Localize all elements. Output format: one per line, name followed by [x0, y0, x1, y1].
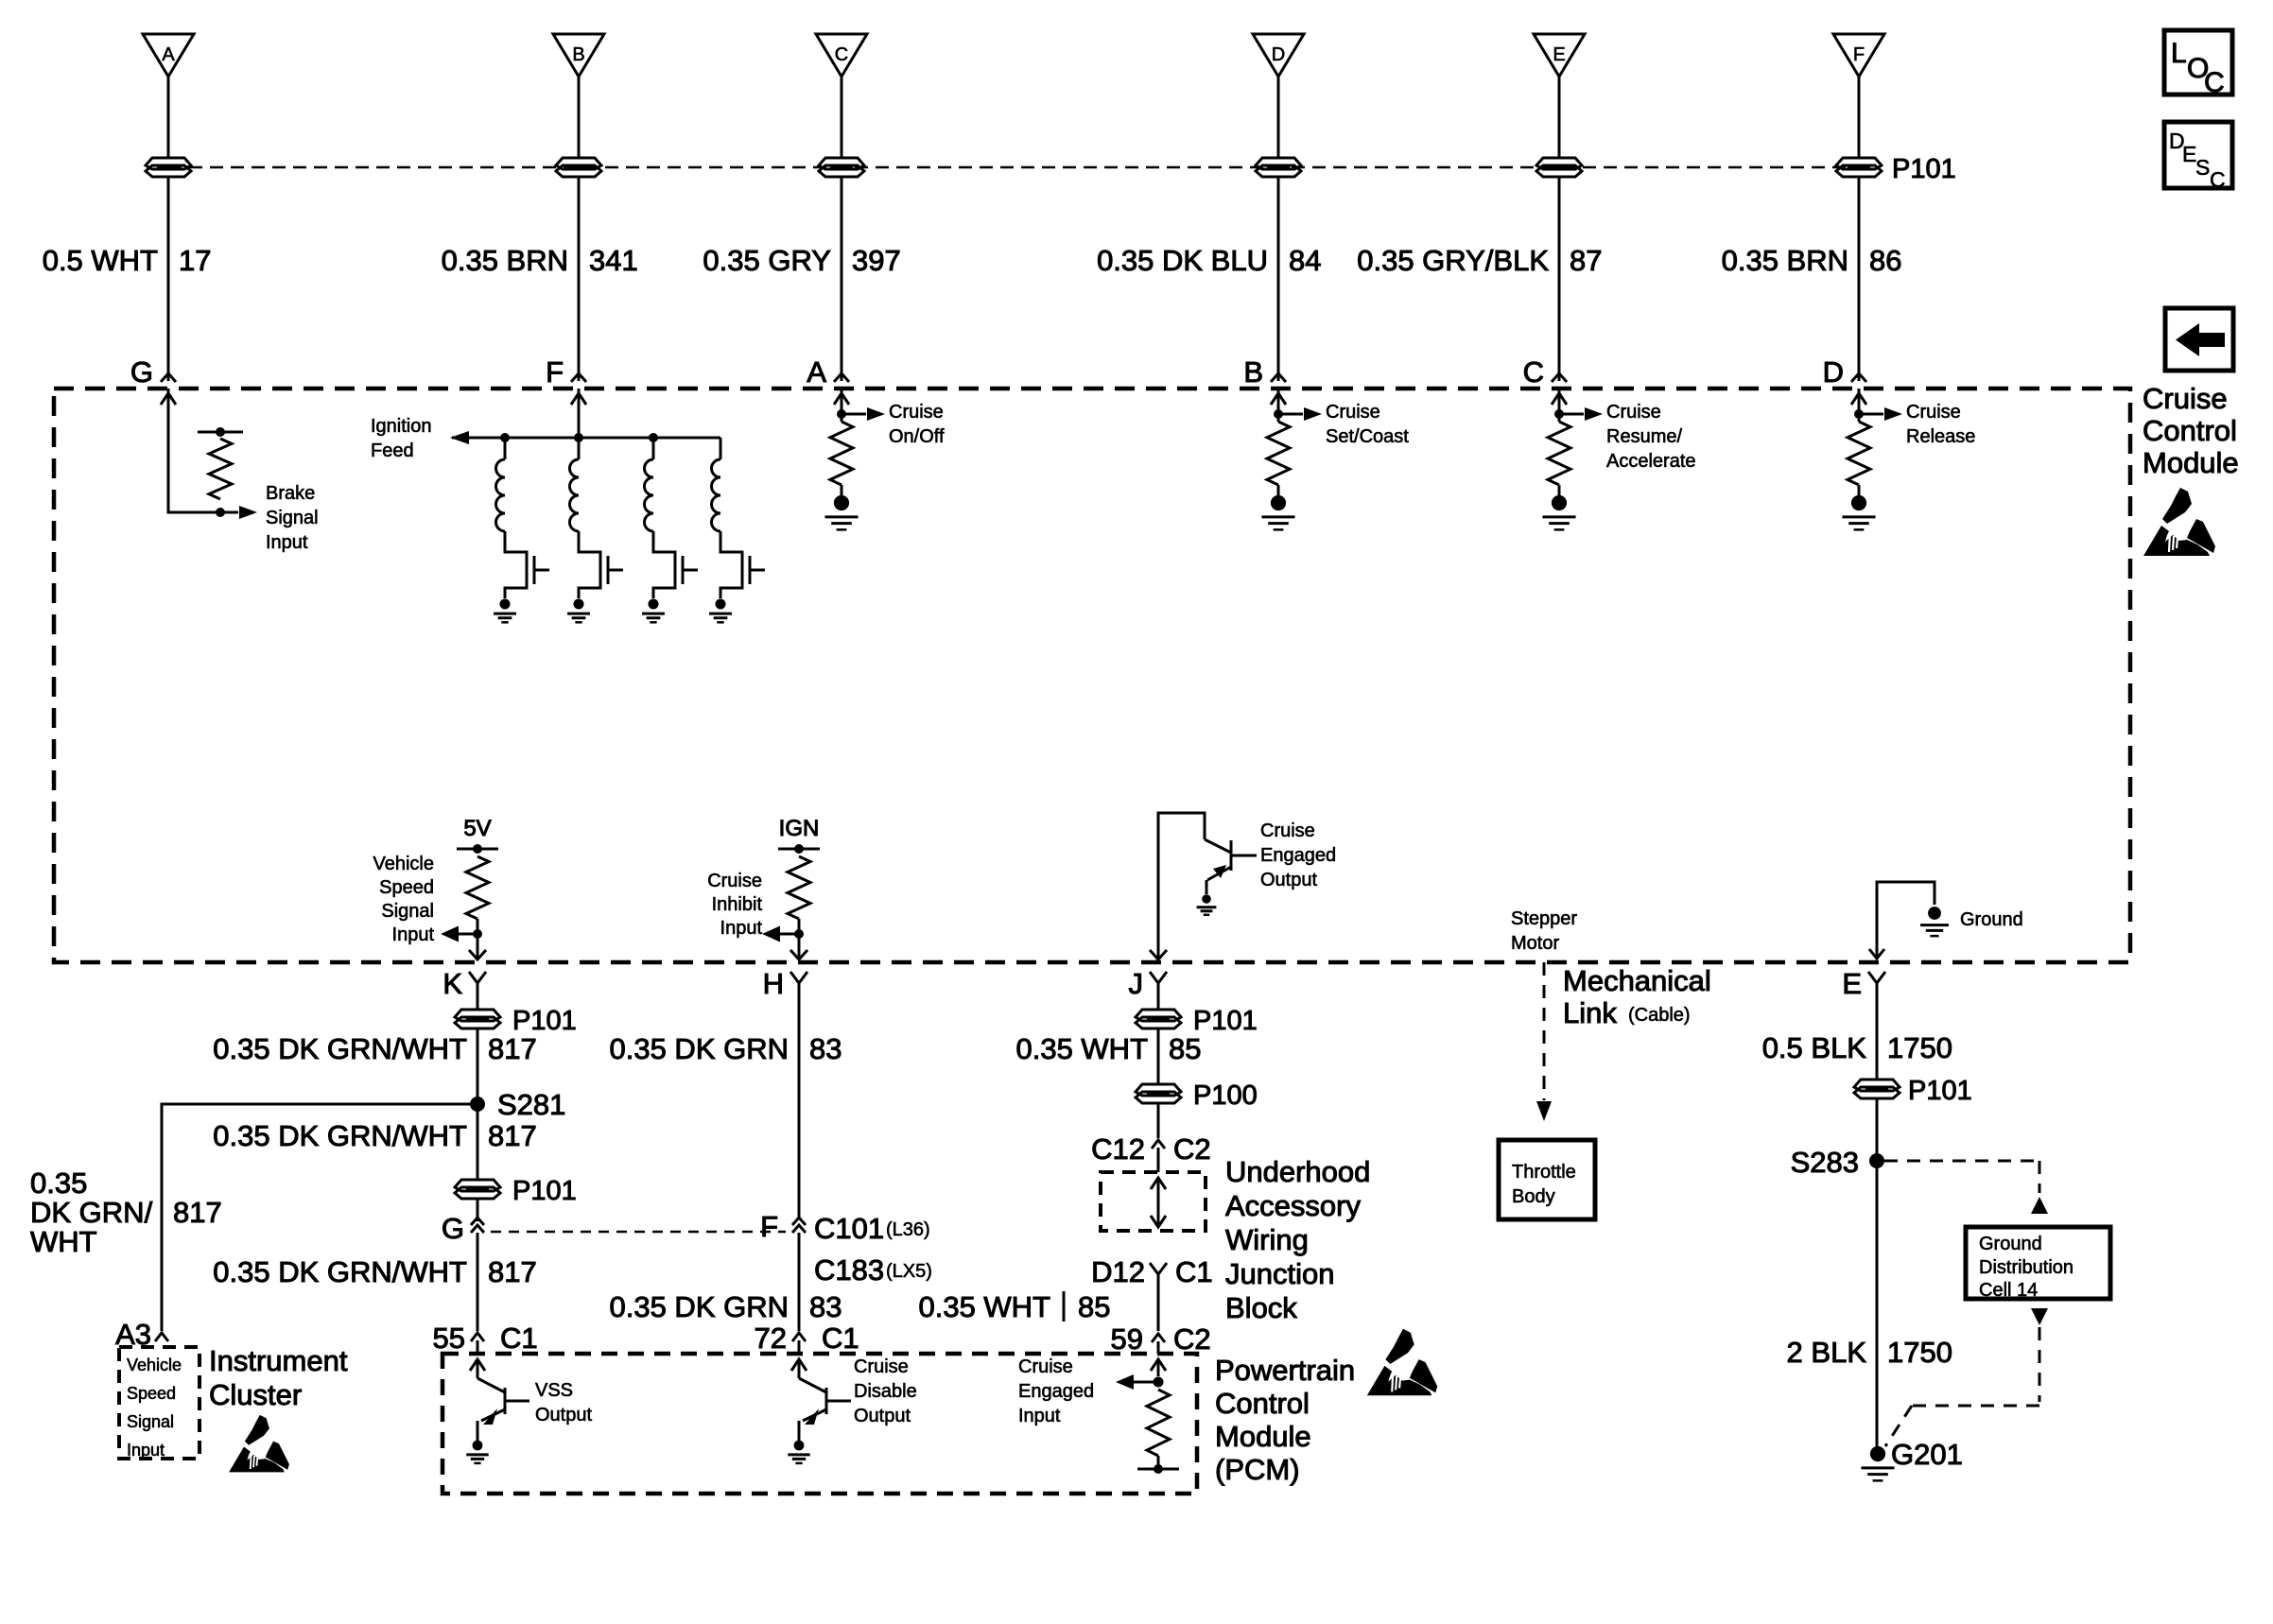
resistor (cruise engaged input) [1147, 1390, 1170, 1456]
IGN rail [778, 816, 820, 854]
wire S283 to G201 [1876, 1161, 1879, 1448]
grommet P100 [1136, 1084, 1181, 1103]
input direction arrow at pin A [834, 393, 849, 405]
wire label 0.35 DK GRN 83 (upper) [609, 1032, 842, 1065]
input arrow (VSS Output) [470, 1359, 485, 1378]
svg-text:Module: Module [2143, 446, 2239, 479]
svg-text:Control: Control [1215, 1387, 1310, 1420]
wire through junction block [1151, 1178, 1166, 1227]
grommet P101 pass-through (D) [1256, 158, 1301, 177]
wire label 0.35 WHT 85 (upper) [1015, 1032, 1201, 1065]
svg-text:(LX5): (LX5) [886, 1261, 932, 1282]
module pin C [1523, 355, 1567, 389]
wire P101 to S283 [1876, 1097, 1879, 1161]
label Vehicle Speed Signal Input [373, 854, 435, 945]
svg-text:D: D [1823, 355, 1844, 389]
wire (5V resistor to pin K) [477, 919, 479, 959]
stepper motor coil L2 [570, 433, 601, 598]
wire K to P101 [477, 987, 479, 1011]
svg-text:0.35 WHT: 0.35 WHT [1015, 1032, 1148, 1065]
svg-text:P101: P101 [1193, 1006, 1258, 1036]
wire label 0.35 GRY 397 [703, 244, 900, 277]
svg-text:0.5 BLK: 0.5 BLK [1762, 1031, 1867, 1064]
off-page connector triangle E [1534, 34, 1585, 77]
svg-text:Link: Link [1563, 996, 1617, 1029]
svg-text:84: 84 [1289, 244, 1321, 277]
wire F (triangle to grommet) [1858, 77, 1861, 157]
svg-text:0.35 BRN: 0.35 BRN [442, 244, 568, 277]
Instrument Cluster input dashed box [119, 1347, 200, 1460]
svg-text:Release: Release [1906, 426, 1975, 447]
svg-text:On/Off: On/Off [889, 426, 945, 447]
svg-text:G201: G201 [1891, 1438, 1963, 1471]
svg-text:0.5 WHT: 0.5 WHT [43, 244, 158, 277]
grommet P101 pass-through (A) [146, 158, 191, 177]
svg-text:59: 59 [1111, 1322, 1143, 1356]
svg-text:5V: 5V [463, 816, 491, 841]
svg-text:Ground: Ground [1960, 909, 2023, 930]
label P101 (K) [512, 1006, 577, 1036]
wire P101 to connector G [477, 1198, 479, 1221]
wire label 0.35 DK GRN/WHT 817 (upper) [213, 1032, 536, 1065]
module pin E (bottom) [1842, 967, 1885, 1002]
svg-text:Resume/: Resume/ [1606, 426, 1682, 447]
svg-text:H: H [763, 967, 784, 1000]
label Cruise On/Off [889, 402, 945, 447]
svg-text:0.35 WHT: 0.35 WHT [918, 1290, 1050, 1323]
wire J to P101 [1157, 987, 1160, 1011]
label Underhood Accessory Wiring Junction Block [1225, 1155, 1370, 1324]
ESD warning symbol (instrument cluster) [229, 1415, 289, 1473]
svg-text:Accessory: Accessory [1225, 1189, 1361, 1222]
svg-text:86: 86 [1869, 244, 1901, 277]
mechanical link dashed line [1536, 962, 1552, 1121]
label Mechanical Link (Cable) [1563, 964, 1711, 1029]
svg-text:72: 72 [755, 1322, 787, 1355]
coil driver transistor Q3 [683, 556, 698, 584]
svg-text:Cruise: Cruise [707, 871, 762, 891]
svg-text:Ignition: Ignition [371, 416, 432, 437]
junction dot (Cruise Set/Coast) [1274, 389, 1283, 422]
svg-text:F: F [546, 355, 564, 389]
signal arrow (Cruise Release) [1859, 407, 1902, 421]
label Brake Signal Input [266, 483, 319, 553]
svg-text:Brake: Brake [266, 483, 315, 504]
wire P101 to S281 [477, 1028, 479, 1104]
svg-text:C: C [1523, 355, 1544, 389]
Ground Distribution Cell 14 box [1966, 1227, 2110, 1301]
label C183 (LX5) [814, 1253, 932, 1287]
svg-text:0.35 DK GRN/WHT: 0.35 DK GRN/WHT [213, 1032, 467, 1065]
input direction arrow at pin B [1271, 393, 1286, 405]
wire (module ground) [1877, 882, 1935, 959]
off-page connector triangle C [816, 34, 867, 77]
svg-text:Input: Input [127, 1441, 165, 1460]
output direction arrow at pin E [1869, 949, 1884, 959]
input direction arrow at pin C [1552, 393, 1567, 405]
resistor (Cruise Release) [1848, 422, 1870, 485]
svg-text:Stepper: Stepper [1511, 908, 1577, 929]
svg-text:Output: Output [854, 1406, 911, 1426]
svg-text:Motor: Motor [1511, 933, 1559, 954]
vehicle speed signal arrow [441, 926, 477, 942]
wire+ground (Cruise Resume/Accelerate) [1542, 485, 1575, 529]
wire pin G to brake branch [168, 389, 220, 512]
module pin K (bottom) [442, 967, 486, 1002]
ignition feed arrow [450, 431, 720, 444]
wire A (grommet to module pin) [167, 176, 170, 381]
svg-text:B: B [572, 44, 584, 65]
svg-text:Vehicle: Vehicle [373, 854, 435, 874]
svg-text:Input: Input [1018, 1406, 1061, 1426]
connector pin F (C101) [760, 1210, 806, 1243]
svg-text:1750: 1750 [1887, 1031, 1952, 1064]
svg-text:Cruise: Cruise [1260, 821, 1315, 841]
wire E (grommet to module pin) [1558, 176, 1561, 381]
wire S281 to P101 [477, 1104, 479, 1181]
output direction arrow at pin K [469, 950, 486, 959]
svg-text:C1: C1 [822, 1322, 859, 1355]
svg-text:83: 83 [809, 1290, 842, 1323]
module pin F [546, 355, 586, 389]
svg-text:0.35 BRN: 0.35 BRN [1722, 244, 1848, 277]
svg-text:K: K [442, 967, 462, 1000]
wire label 0.35 BRN 86 [1722, 244, 1902, 277]
svg-text:G: G [130, 355, 153, 389]
resistor (Cruise On/Off) [830, 422, 853, 485]
label Cruise Disable Output [854, 1356, 917, 1426]
svg-text:Cruise: Cruise [2143, 382, 2228, 415]
wire F (grommet to module pin) [1858, 176, 1861, 381]
svg-text:E: E [1842, 967, 1862, 1000]
svg-text:Powertrain: Powertrain [1215, 1354, 1355, 1387]
resistor (vehicle speed signal input) [466, 856, 489, 919]
wire label 0.35 DK GRN/WHT 817 (middle) [213, 1119, 536, 1152]
svg-text:Underhood: Underhood [1225, 1155, 1370, 1188]
wire+ground (Cruise Release) [1842, 485, 1875, 529]
svg-text:0.35: 0.35 [30, 1166, 87, 1200]
ground (coil driver 4) [709, 598, 732, 622]
coil driver transistor Q1 [534, 556, 549, 584]
wire label 0.35 WHT 85 (lower) [918, 1290, 1110, 1323]
svg-text:Control: Control [2143, 414, 2237, 447]
module pin J (bottom) [1129, 967, 1168, 1002]
wire E to P101 [1876, 987, 1879, 1080]
svg-text:Cruise: Cruise [854, 1356, 909, 1377]
svg-text:Engaged: Engaged [1018, 1381, 1094, 1402]
output direction arrow at pin J [1150, 950, 1167, 959]
svg-text:Cruise: Cruise [1018, 1356, 1073, 1377]
svg-text:C1: C1 [500, 1322, 538, 1355]
wire label 0.35 DK GRN 83 (lower) [609, 1290, 842, 1323]
svg-text:85: 85 [1169, 1032, 1201, 1065]
ground (coil driver 1) [494, 598, 516, 622]
svg-text:D: D [1272, 44, 1285, 65]
svg-text:VSS: VSS [535, 1380, 573, 1401]
cluster pin A3 [115, 1318, 168, 1351]
transistor (VSS Output, NPN) [477, 1378, 529, 1441]
svg-text:397: 397 [852, 244, 901, 277]
svg-text:17: 17 [179, 244, 211, 277]
off-page connector triangle D [1253, 34, 1304, 77]
svg-text:(L36): (L36) [886, 1219, 930, 1240]
junction dot (brake branch) [216, 508, 225, 517]
ground G201 [1861, 1438, 1962, 1480]
svg-text:A: A [162, 44, 175, 65]
label C101 (L36) [814, 1212, 930, 1245]
svg-text:E: E [1553, 44, 1565, 65]
wire B (grommet to module pin) [578, 176, 581, 381]
wire label 0.35 DK GRN/WHT 817 (cluster) [30, 1166, 222, 1258]
svg-text:1750: 1750 [1887, 1336, 1952, 1369]
module pin D [1823, 355, 1866, 389]
coil driver transistor Q2 [608, 556, 623, 584]
svg-text:817: 817 [173, 1196, 222, 1229]
grommet P101 pass-through (C) [819, 158, 864, 177]
input arrow (Cruise Disable Output) [791, 1359, 807, 1378]
svg-text:(Cable): (Cable) [1628, 1005, 1691, 1026]
PCM pin 55 C1 [433, 1322, 538, 1355]
svg-text:0.35 DK GRN: 0.35 DK GRN [609, 1290, 789, 1323]
svg-text:Set/Coast: Set/Coast [1326, 426, 1409, 447]
svg-text:S: S [2195, 155, 2210, 180]
5V rail [457, 816, 498, 854]
off-page connector triangle F [1833, 34, 1884, 77]
label Instrument Cluster [209, 1344, 348, 1411]
Cruise Control Module boundary (dashed box) [54, 389, 2130, 962]
svg-text:P100: P100 [1193, 1080, 1258, 1111]
svg-text:Input: Input [720, 918, 763, 939]
grommet P101 pass-through (E) [1536, 158, 1582, 177]
stepper motor coil L4 [712, 438, 743, 598]
wire+ground (Cruise On/Off) [824, 485, 858, 529]
ground (cruise engaged output) [1197, 894, 1217, 915]
svg-text:Throttle: Throttle [1512, 1162, 1576, 1183]
LOC legend box [2164, 30, 2232, 98]
svg-text:P101: P101 [512, 1176, 577, 1206]
resistor (Cruise Set/Coast) [1267, 422, 1290, 485]
back-arrow legend box [2165, 308, 2233, 371]
Throttle Body box [1499, 1140, 1595, 1219]
junction dot (Cruise Resume/Accelerate) [1554, 389, 1564, 422]
svg-text:2 BLK: 2 BLK [1787, 1336, 1867, 1369]
svg-text:Inhibit: Inhibit [712, 894, 763, 915]
wire C (triangle to grommet) [841, 77, 843, 157]
coil driver transistor Q4 [750, 556, 765, 584]
svg-text:Signal: Signal [266, 508, 319, 528]
svg-text:J: J [1129, 967, 1144, 1000]
svg-text:Cruise: Cruise [1906, 402, 1961, 423]
svg-text:341: 341 [589, 244, 638, 277]
connector pins D12 / C1 [1091, 1255, 1213, 1331]
svg-text:WHT: WHT [30, 1225, 97, 1258]
svg-text:Accelerate: Accelerate [1606, 451, 1696, 472]
DESC legend box [2164, 122, 2232, 192]
svg-text:Ground: Ground [1979, 1234, 2042, 1254]
svg-text:Speed: Speed [379, 877, 434, 898]
svg-text:Speed: Speed [127, 1384, 176, 1403]
junction dot (Cruise Release) [1854, 389, 1864, 422]
grommet P101 pass-through (B) [556, 158, 601, 177]
resistor (brake signal input) [209, 439, 232, 499]
label Stepper Motor [1511, 908, 1577, 954]
wire E (triangle to grommet) [1558, 77, 1561, 157]
input arrow (cruise engaged input) [1151, 1359, 1166, 1376]
off-page connector triangle A [143, 34, 194, 77]
label Cruise Engaged Output [1260, 821, 1336, 890]
connector pin G (C101) [442, 1212, 484, 1245]
connector pins C12 / C2 [1091, 1132, 1211, 1172]
splice S281 [470, 1088, 565, 1121]
resistor (cruise inhibit input) [788, 856, 810, 919]
wire label 0.35 BRN 341 [442, 244, 638, 277]
label Cruise Inhibit Input [707, 871, 762, 939]
cruise engaged input arrow [1116, 1374, 1158, 1390]
transistor (Cruise Disable Output, NPN) [799, 1378, 851, 1441]
svg-text:0.35 DK GRN/WHT: 0.35 DK GRN/WHT [213, 1119, 467, 1152]
svg-text:P101: P101 [1892, 154, 1956, 184]
svg-text:Vehicle: Vehicle [127, 1356, 182, 1374]
module pin H (bottom) [763, 967, 807, 1002]
wire C (grommet to module pin) [841, 176, 843, 381]
wire label 0.35 DK GRN/WHT 817 (lower) [213, 1255, 536, 1288]
wire G to pin 55 [477, 1233, 479, 1331]
label P101 (E) [1908, 1076, 1972, 1106]
PCM pin 59 C2 [1111, 1322, 1211, 1356]
stepper motor coil L1 [496, 433, 528, 598]
svg-text:Junction: Junction [1225, 1257, 1334, 1290]
wire label 0.5 BLK 1750 [1762, 1031, 1952, 1064]
stepper motor coil L3 [645, 433, 676, 598]
wire D (triangle to grommet) [1277, 77, 1280, 157]
svg-text:55: 55 [433, 1322, 465, 1355]
svg-text:Cell 14: Cell 14 [1979, 1280, 2038, 1301]
wire P101 to P100 [1157, 1028, 1160, 1085]
wire label 2 BLK 1750 [1787, 1336, 1952, 1369]
signal arrow (Cruise Set/Coast) [1278, 407, 1322, 421]
ESD warning symbol (cruise control module) [2143, 488, 2215, 556]
wire B (triangle to grommet) [578, 77, 581, 157]
wire (cruise engaged output) [1158, 813, 1205, 959]
splice S283 [1791, 1146, 1884, 1179]
brake pull-up rail bar [198, 427, 243, 437]
svg-text:Signal: Signal [127, 1412, 174, 1431]
svg-text:Feed: Feed [371, 441, 414, 461]
dashed link S283 to ground distribution [1884, 1161, 2048, 1214]
grommet P101 (K) [455, 1010, 500, 1028]
svg-text:Wiring: Wiring [1225, 1223, 1309, 1256]
ground (coil driver 3) [642, 598, 665, 622]
label Ignition Feed [371, 416, 432, 461]
svg-text:Module: Module [1215, 1420, 1311, 1453]
svg-text:F: F [760, 1210, 778, 1243]
wire pin F into ignition bus [578, 389, 581, 438]
module pin A [807, 355, 849, 389]
wire+ground (Cruise Set/Coast) [1261, 485, 1294, 529]
svg-text:C183: C183 [814, 1253, 884, 1287]
signal arrow (Cruise Resume/Accelerate) [1559, 407, 1603, 421]
svg-text:C101: C101 [814, 1212, 884, 1245]
svg-text:Block: Block [1225, 1291, 1297, 1324]
svg-text:C1: C1 [1175, 1255, 1213, 1288]
svg-text:0.35 DK GRN/WHT: 0.35 DK GRN/WHT [213, 1255, 467, 1288]
label P100 [1193, 1080, 1258, 1111]
junction dot (cruise engaged input) [1154, 1377, 1164, 1388]
label P101 (K lower) [512, 1176, 577, 1206]
grommet P101 pass-through (F) [1836, 158, 1882, 177]
svg-text:D12: D12 [1091, 1255, 1145, 1288]
svg-text:G: G [442, 1212, 464, 1245]
svg-text:817: 817 [488, 1032, 537, 1065]
wire H to pin 72 [798, 987, 801, 1331]
svg-text:817: 817 [488, 1119, 537, 1152]
svg-text:L: L [2171, 38, 2187, 69]
svg-text:Body: Body [1512, 1186, 1555, 1207]
svg-text:Output: Output [1260, 870, 1317, 890]
svg-text:Input: Input [266, 532, 308, 553]
Powertrain Control Module dashed box [442, 1354, 1197, 1494]
svg-text:Cruise: Cruise [1606, 402, 1661, 423]
label Ground [1960, 909, 2023, 930]
svg-text:0.35 DK BLU: 0.35 DK BLU [1097, 244, 1268, 277]
brake signal output arrow [220, 506, 257, 519]
PCM pin 72 C1 [755, 1322, 859, 1355]
grommet P101 (E) [1854, 1080, 1900, 1098]
label Cruise Control Module [2143, 382, 2239, 479]
label Cruise Engaged Input [1018, 1356, 1094, 1426]
label Cruise Release [1906, 402, 1975, 447]
transistor Q5 (cruise engaged output, PNP) [1205, 839, 1257, 894]
label P101 (J) [1193, 1006, 1258, 1036]
ground (coil driver 2) [567, 598, 590, 622]
svg-text:83: 83 [809, 1032, 842, 1065]
output direction arrow at pin H [790, 950, 807, 959]
svg-text:Output: Output [535, 1405, 592, 1425]
junction dot (Cruise On/Off) [837, 389, 846, 422]
svg-text:817: 817 [488, 1255, 537, 1288]
input direction arrow at pin G [161, 393, 176, 405]
svg-text:85: 85 [1078, 1290, 1110, 1323]
junction dot (VSS input) [473, 929, 482, 939]
svg-text:C: C [2204, 67, 2225, 98]
grommet P101 (K lower) [455, 1180, 500, 1199]
resistor (Cruise Resume/Accelerate) [1548, 422, 1570, 485]
svg-text:Cluster: Cluster [209, 1378, 302, 1411]
svg-text:B: B [1243, 355, 1263, 389]
grommet P101 (J) [1136, 1010, 1181, 1028]
svg-text:(PCM): (PCM) [1215, 1453, 1300, 1486]
dashed harness grommet line P101 [168, 166, 1859, 169]
svg-text:87: 87 [1570, 244, 1602, 277]
cruise inhibit arrow [762, 926, 799, 942]
module pin B [1243, 355, 1286, 389]
ground (Cruise Disable Output) [788, 1441, 809, 1463]
wire D (grommet to module pin) [1277, 176, 1280, 381]
svg-text:Signal: Signal [381, 901, 434, 922]
ground symbol (module ground) [1920, 907, 1949, 936]
wire A (triangle to grommet) [167, 77, 170, 157]
svg-text:C: C [2210, 167, 2226, 192]
module pin G [130, 355, 176, 389]
junction dot (cruise inhibit) [794, 929, 804, 939]
input direction arrow at pin D [1851, 393, 1866, 405]
svg-text:IGN: IGN [779, 816, 820, 841]
svg-text:Instrument: Instrument [209, 1344, 348, 1377]
wire label 0.35 GRY/BLK 87 [1357, 244, 1602, 277]
svg-text:S281: S281 [497, 1088, 565, 1121]
input direction arrow at pin F [571, 393, 586, 405]
label P101 (top) [1892, 154, 1956, 184]
